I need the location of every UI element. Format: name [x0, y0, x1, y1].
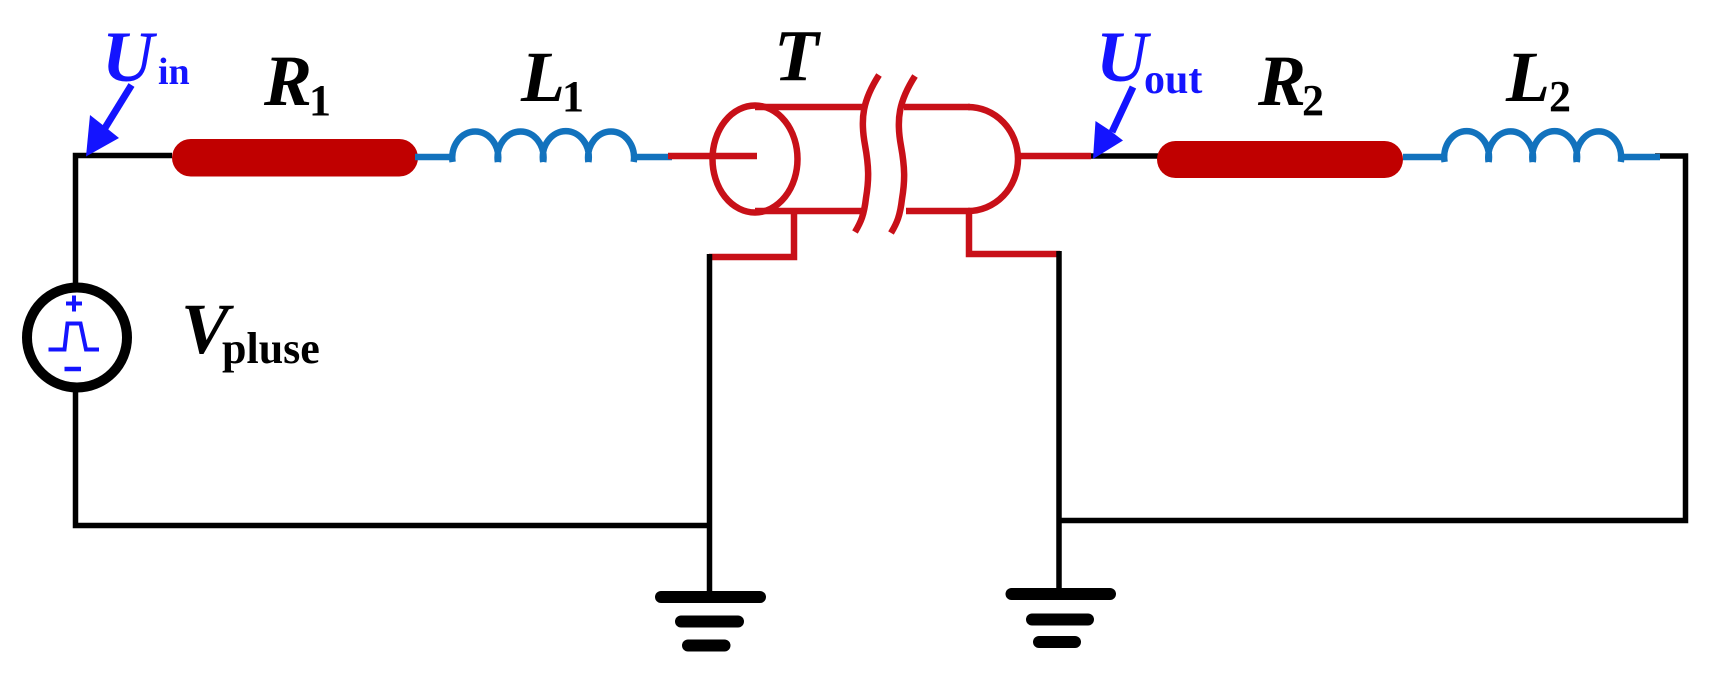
transformer T right shield stub	[969, 208, 1060, 254]
arrow U_in	[105, 85, 132, 128]
svg-text:L: L	[1505, 37, 1550, 117]
minus polarity mark of source	[65, 367, 82, 372]
ground right symbol	[1012, 588, 1111, 600]
svg-text:T: T	[774, 15, 821, 96]
wire left ground vertical	[707, 254, 713, 592]
wire left rail lower segment and bottom-left wire	[76, 386, 712, 526]
transformer T left cylinder ellipse	[713, 106, 798, 213]
svg-text:out: out	[1144, 57, 1202, 103]
svg-text:2: 2	[1549, 72, 1571, 121]
pulse waveform inside source	[49, 324, 100, 350]
svg-text:2: 2	[1302, 76, 1324, 125]
resistor R1	[172, 139, 418, 177]
svg-text:1: 1	[309, 76, 331, 125]
svg-text:pluse: pluse	[222, 324, 320, 373]
resistor R2	[1157, 141, 1403, 178]
wire red lead into transformer T	[668, 153, 757, 160]
svg-text:1: 1	[562, 72, 584, 121]
wire right ground vertical	[1056, 251, 1062, 588]
transformer T right rounded cap	[968, 107, 1018, 211]
transformer T right body top and bottom lines	[904, 107, 970, 211]
pulse voltage source Vpluse circle	[27, 288, 127, 388]
wire bottom-right and right rail	[1059, 156, 1686, 521]
transformer T inner conductor right lead	[1020, 153, 1091, 160]
transformer T left body top and bottom lines	[755, 107, 866, 211]
transformer T break wavy line right	[891, 76, 915, 233]
inductor L2	[1403, 131, 1660, 162]
transformer T left shield stub	[709, 208, 794, 257]
arrow U_out	[1112, 87, 1133, 132]
ground left symbol	[661, 591, 760, 603]
plus polarity mark of source	[66, 296, 82, 312]
inductor L1	[415, 131, 672, 162]
svg-text:L: L	[520, 37, 565, 117]
svg-text:R: R	[263, 41, 312, 121]
svg-text:R: R	[1257, 41, 1306, 121]
transformer T break wavy line left	[855, 75, 879, 232]
svg-text:in: in	[158, 51, 190, 93]
wire black before R2	[1091, 153, 1158, 159]
wire top-left node and left rail upper segment	[76, 156, 173, 291]
